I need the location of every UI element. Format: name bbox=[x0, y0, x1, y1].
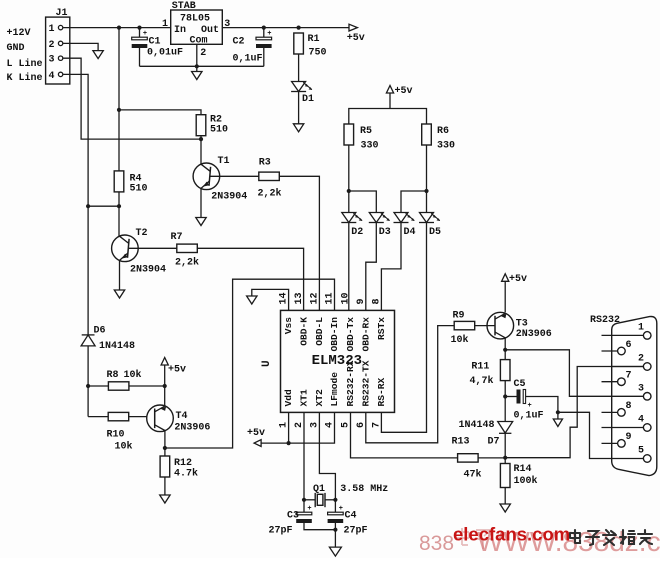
svg-text:LFmode: LFmode bbox=[329, 372, 340, 407]
svg-text:R10: R10 bbox=[107, 430, 125, 441]
svg-text:C1: C1 bbox=[149, 37, 161, 48]
svg-text:OBD-K: OBD-K bbox=[299, 317, 310, 346]
svg-text:750: 750 bbox=[309, 48, 327, 59]
svg-text:4: 4 bbox=[49, 71, 55, 82]
svg-text:3: 3 bbox=[638, 383, 644, 394]
svg-text:78L05: 78L05 bbox=[180, 14, 210, 25]
svg-text:XT2: XT2 bbox=[314, 389, 325, 407]
svg-text:10k: 10k bbox=[451, 334, 469, 346]
svg-text:47k: 47k bbox=[464, 469, 482, 481]
svg-text:D4: D4 bbox=[404, 227, 416, 238]
svg-text:3: 3 bbox=[49, 55, 55, 66]
svg-text:U: U bbox=[261, 360, 273, 367]
svg-text:838: 838 bbox=[419, 532, 454, 555]
svg-text:+: + bbox=[307, 505, 311, 513]
svg-text:T2: T2 bbox=[136, 228, 148, 239]
svg-text:330: 330 bbox=[437, 141, 455, 152]
svg-text:+: + bbox=[528, 402, 532, 410]
svg-text:R5: R5 bbox=[360, 126, 372, 137]
svg-text:+: + bbox=[339, 505, 343, 513]
svg-text:+5v: +5v bbox=[247, 428, 265, 439]
svg-text:1: 1 bbox=[162, 19, 168, 30]
svg-text:10: 10 bbox=[341, 292, 352, 304]
svg-text:OBD-Rx: OBD-Rx bbox=[360, 317, 371, 352]
svg-text:R11: R11 bbox=[471, 362, 489, 373]
svg-text:C3: C3 bbox=[287, 511, 299, 522]
svg-text:100k: 100k bbox=[514, 475, 538, 487]
svg-text:J1: J1 bbox=[56, 8, 68, 19]
svg-text:R14: R14 bbox=[514, 464, 532, 475]
svg-text:2N3904: 2N3904 bbox=[130, 265, 166, 276]
svg-text:STAB: STAB bbox=[172, 1, 196, 12]
svg-text:Vdd: Vdd bbox=[283, 389, 294, 407]
svg-text:R6: R6 bbox=[437, 126, 449, 137]
svg-text:R8: R8 bbox=[107, 370, 119, 381]
svg-text:8: 8 bbox=[372, 298, 383, 304]
svg-text:C2: C2 bbox=[233, 37, 245, 48]
svg-text:RSTx: RSTx bbox=[376, 317, 387, 340]
svg-text:R12: R12 bbox=[174, 458, 192, 469]
svg-text:5: 5 bbox=[638, 446, 644, 457]
svg-text:12: 12 bbox=[310, 292, 321, 304]
svg-text:7: 7 bbox=[625, 371, 631, 382]
svg-text:2N3906: 2N3906 bbox=[516, 329, 552, 340]
svg-text:0,01uF: 0,01uF bbox=[147, 48, 183, 59]
svg-text:+: + bbox=[143, 30, 147, 38]
svg-text:4.7k: 4.7k bbox=[174, 468, 198, 480]
svg-text:1: 1 bbox=[638, 322, 644, 333]
svg-text:Com: Com bbox=[190, 35, 208, 46]
svg-text:9: 9 bbox=[625, 432, 631, 443]
svg-text:0,1uF: 0,1uF bbox=[514, 411, 544, 422]
svg-text:0,1uF: 0,1uF bbox=[233, 54, 263, 65]
svg-text:8: 8 bbox=[625, 401, 631, 412]
svg-text:1: 1 bbox=[49, 24, 55, 35]
svg-text:RS232-RX: RS232-RX bbox=[345, 360, 356, 406]
svg-text:RS232: RS232 bbox=[590, 315, 620, 326]
svg-text:C5: C5 bbox=[514, 379, 526, 390]
svg-text:3: 3 bbox=[224, 19, 230, 30]
svg-text:1N4148: 1N4148 bbox=[99, 341, 135, 352]
svg-text:D3: D3 bbox=[379, 227, 391, 238]
svg-text:In: In bbox=[174, 25, 186, 36]
svg-text:6: 6 bbox=[625, 340, 631, 351]
svg-text:10k: 10k bbox=[124, 369, 142, 381]
svg-text:2: 2 bbox=[638, 354, 644, 365]
svg-text:R7: R7 bbox=[171, 232, 183, 243]
svg-text:330: 330 bbox=[361, 141, 379, 152]
svg-text:OBD-L: OBD-L bbox=[314, 317, 325, 346]
svg-text:2,2k: 2,2k bbox=[258, 188, 282, 200]
svg-text:GND: GND bbox=[7, 43, 25, 54]
svg-text:Q1: Q1 bbox=[313, 484, 325, 495]
svg-text:9: 9 bbox=[356, 298, 367, 304]
svg-text:2N3904: 2N3904 bbox=[211, 192, 247, 203]
svg-text:4: 4 bbox=[638, 415, 644, 426]
svg-text:R9: R9 bbox=[453, 311, 465, 322]
svg-text:D2: D2 bbox=[351, 227, 363, 238]
svg-text:D5: D5 bbox=[429, 227, 441, 238]
svg-text:1N4148: 1N4148 bbox=[459, 420, 495, 431]
svg-text:D1: D1 bbox=[302, 94, 314, 105]
svg-text:27pF: 27pF bbox=[344, 526, 368, 537]
svg-text:2N3906: 2N3906 bbox=[174, 423, 210, 434]
svg-text:4,7k: 4,7k bbox=[470, 375, 494, 387]
svg-text:T3: T3 bbox=[516, 319, 528, 330]
svg-text:2,2k: 2,2k bbox=[175, 257, 199, 269]
svg-text:R1: R1 bbox=[308, 34, 320, 45]
svg-text:RS232-TX: RS232-TX bbox=[360, 360, 371, 406]
svg-text:510: 510 bbox=[130, 184, 148, 195]
svg-text:11: 11 bbox=[325, 292, 336, 304]
svg-text:R13: R13 bbox=[452, 437, 470, 448]
svg-text:2: 2 bbox=[49, 40, 55, 51]
svg-text:510: 510 bbox=[210, 125, 228, 136]
svg-text:7: 7 bbox=[372, 422, 383, 428]
svg-text:+5v: +5v bbox=[395, 86, 413, 97]
svg-text:10k: 10k bbox=[115, 441, 133, 453]
svg-text:RS-RX: RS-RX bbox=[376, 377, 387, 406]
svg-text:OBD-In: OBD-In bbox=[329, 317, 340, 352]
svg-text:R3: R3 bbox=[259, 158, 271, 169]
svg-text:K Line: K Line bbox=[7, 72, 43, 84]
svg-text:XT1: XT1 bbox=[299, 389, 310, 407]
svg-text:C4: C4 bbox=[345, 511, 357, 522]
svg-text:OBD-Tx: OBD-Tx bbox=[345, 317, 356, 352]
svg-text:+12V: +12V bbox=[7, 28, 31, 39]
svg-text:13: 13 bbox=[294, 292, 305, 304]
svg-text:D7: D7 bbox=[488, 437, 500, 448]
svg-text:+5v: +5v bbox=[168, 365, 186, 376]
svg-text:+: + bbox=[267, 30, 271, 38]
svg-text:T4: T4 bbox=[176, 411, 188, 422]
svg-text:27pF: 27pF bbox=[269, 526, 293, 537]
svg-text:+5v: +5v bbox=[509, 274, 527, 285]
svg-text:2: 2 bbox=[200, 48, 206, 59]
svg-text:3.58 MHz: 3.58 MHz bbox=[340, 484, 388, 495]
svg-text:+5v: +5v bbox=[347, 33, 365, 44]
svg-text:Vss: Vss bbox=[283, 317, 294, 335]
svg-text:elecfans.com: elecfans.com bbox=[453, 524, 570, 545]
svg-text:T1: T1 bbox=[218, 156, 230, 167]
svg-text:L Line: L Line bbox=[7, 58, 43, 70]
svg-text:D6: D6 bbox=[94, 326, 106, 337]
